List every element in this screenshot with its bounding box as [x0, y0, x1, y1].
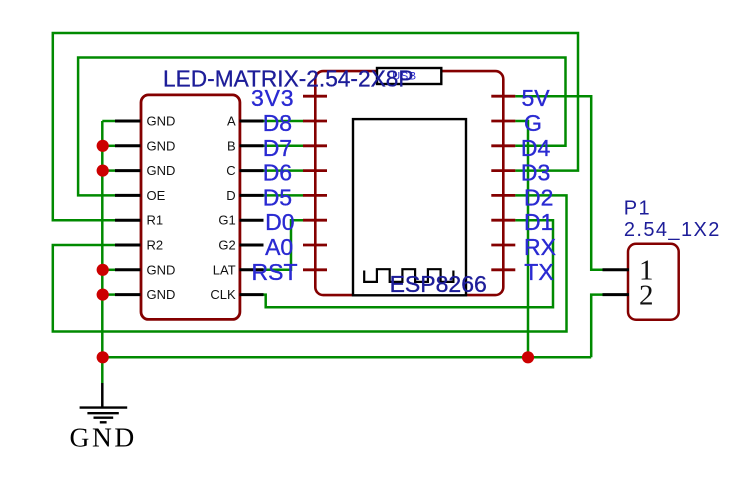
- ESP8266 pin tick 3V3: [303, 95, 327, 98]
- wire GND stub pin3: [102, 169, 115, 172]
- ESP8266 pin tick TX: [491, 268, 515, 271]
- LED-MATRIX pin GND 8: [115, 293, 141, 296]
- svg-text:D8: D8: [263, 110, 292, 136]
- LED-MATRIX pin LAT: [240, 268, 264, 271]
- svg-text:P1: P1: [624, 198, 651, 220]
- wire R2 to D2: [53, 195, 567, 331]
- LED-MATRIX pin GND 2: [115, 144, 141, 147]
- ESP8266 pin tick RST: [303, 268, 327, 271]
- ESP8266 pin tick D4: [491, 144, 515, 147]
- junction dot GND rail at G wire: [522, 351, 534, 363]
- ESP8266 pin tick D6: [303, 169, 327, 172]
- LED-MATRIX pin G2: [240, 244, 264, 247]
- ESP8266 pin tick D2: [491, 194, 515, 197]
- svg-text:R2: R2: [147, 238, 164, 253]
- svg-text:A0: A0: [265, 234, 293, 260]
- svg-text:CLK: CLK: [210, 287, 236, 302]
- svg-text:C: C: [226, 163, 235, 178]
- ESP8266 pin tick 5V: [491, 95, 515, 98]
- svg-text:G2: G2: [218, 238, 235, 253]
- ESP8266 pin tick D8: [303, 120, 327, 123]
- wire GND to ground symbol: [101, 357, 104, 383]
- svg-text:TX: TX: [524, 259, 553, 285]
- ESP8266 USB connector rectangle: [377, 68, 441, 84]
- ESP8266 module PCB rectangle: [353, 119, 466, 295]
- LED-MATRIX pin CLK: [240, 293, 264, 296]
- wire R1 to D3: [53, 33, 578, 220]
- svg-text:D4: D4: [521, 135, 551, 161]
- ESP8266 pin tick D7: [303, 144, 327, 147]
- wire B to D7: [263, 145, 304, 148]
- svg-text:RX: RX: [524, 234, 556, 260]
- connector P1 body: [628, 244, 679, 320]
- svg-text:GND: GND: [147, 163, 176, 178]
- junction dot GND pin7: [97, 264, 109, 276]
- svg-text:3V3: 3V3: [251, 85, 294, 111]
- ground symbol bar 1: [80, 406, 128, 408]
- LED-MATRIX pin R2: [115, 244, 141, 247]
- svg-text:GND: GND: [147, 262, 176, 277]
- svg-text:R1: R1: [147, 213, 164, 228]
- junction dot GND rail left: [97, 351, 109, 363]
- svg-text:D1: D1: [524, 209, 553, 235]
- svg-text:ESP8266: ESP8266: [390, 271, 487, 297]
- svg-text:2: 2: [639, 279, 654, 311]
- svg-text:D2: D2: [524, 184, 553, 210]
- svg-text:5V: 5V: [522, 85, 551, 111]
- LED-MATRIX pin C: [240, 169, 264, 172]
- ESP8266 pin tick RX: [491, 244, 515, 247]
- ground symbol bar 3: [94, 417, 114, 419]
- wire GND net: left vertical bus: [101, 121, 104, 357]
- ground symbol bar 4: [100, 421, 107, 423]
- wire GND stub pin1: [102, 120, 115, 123]
- wire OE to D4: [78, 58, 565, 196]
- svg-text:GND: GND: [147, 287, 176, 302]
- ESP8266 pin tick D3: [491, 169, 515, 172]
- ESP8266 pin tick D1: [491, 219, 515, 222]
- ground symbol stem: [101, 383, 104, 408]
- wire GND bottom rail: [102, 356, 591, 359]
- junction dot GND pin2: [97, 140, 109, 152]
- svg-text:GND: GND: [147, 114, 176, 129]
- LED-MATRIX pin A: [240, 120, 264, 123]
- svg-text:GND: GND: [70, 422, 137, 453]
- ESP8266 pin tick G: [491, 120, 515, 123]
- svg-text:D6: D6: [263, 160, 292, 186]
- ESP8266 pin tick A0: [303, 244, 327, 247]
- ESP8266 castellated edge: [364, 269, 453, 282]
- svg-text:A: A: [227, 114, 236, 129]
- svg-text:2.54_1X2: 2.54_1X2: [624, 219, 721, 241]
- wire CLK to D1: [263, 220, 553, 307]
- ground symbol bar 2: [87, 412, 118, 414]
- svg-text:OE: OE: [147, 188, 166, 203]
- LED-MATRIX pin GND 1: [115, 120, 141, 123]
- wire GND rail to P1 pin2: [591, 295, 602, 358]
- wire GND stub pin8: [102, 293, 115, 296]
- svg-text:G: G: [524, 110, 542, 136]
- P1 pin 2: [603, 293, 630, 296]
- wire LAT to D0: [263, 220, 304, 270]
- svg-text:D5: D5: [263, 184, 292, 210]
- junction dot GND pin8: [97, 289, 109, 301]
- svg-text:D7: D7: [263, 135, 292, 161]
- wire GND stub pin7: [102, 269, 115, 272]
- wire G pin to GND rail: [515, 121, 528, 357]
- svg-text:GND: GND: [147, 138, 176, 153]
- svg-text:G1: G1: [218, 213, 235, 228]
- junction dot GND pin3: [97, 165, 109, 177]
- LED-MATRIX pin D: [240, 194, 264, 197]
- svg-text:D3: D3: [521, 160, 550, 186]
- ESP8266 pin tick D0: [303, 219, 327, 222]
- wire D to D5: [263, 194, 304, 197]
- LED-MATRIX pin B: [240, 144, 264, 147]
- LED-MATRIX pin GND 3: [115, 169, 141, 172]
- wire GND stub pin2: [102, 145, 115, 148]
- P1 pin 1: [603, 268, 630, 271]
- module U1 ESP8266 body outline: [315, 71, 503, 295]
- connector LED-MATRIX-2.54-2X8P body: [141, 95, 240, 320]
- wire A to D8: [263, 120, 304, 123]
- svg-text:LAT: LAT: [213, 262, 236, 277]
- svg-text:D: D: [226, 188, 235, 203]
- LED-MATRIX pin G1: [240, 219, 264, 222]
- ESP8266 pin tick D5: [303, 194, 327, 197]
- svg-text:D0: D0: [265, 209, 294, 235]
- LED-MATRIX pin GND 7: [115, 268, 141, 271]
- svg-text:RST: RST: [252, 259, 298, 285]
- LED-MATRIX pin R1: [115, 219, 141, 222]
- wire C to D6: [263, 169, 304, 172]
- LED-MATRIX pin OE: [115, 194, 141, 197]
- svg-text:B: B: [227, 138, 236, 153]
- wire 5V to P1 pin1: [515, 96, 602, 270]
